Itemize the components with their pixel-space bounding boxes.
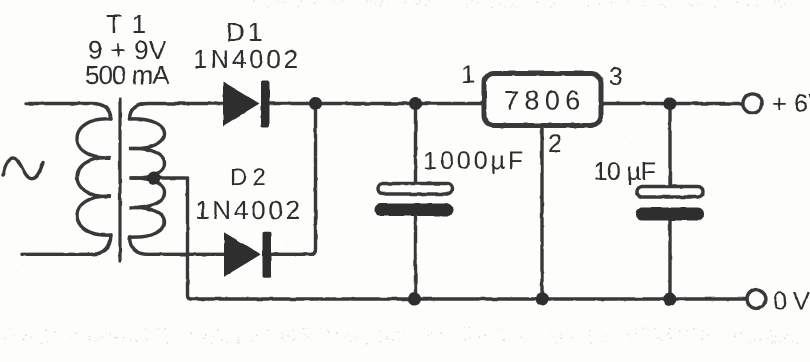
wire primary bottom lead — [22, 235, 111, 254]
svg-text:+ 6V: + 6V — [772, 90, 810, 118]
svg-text:1: 1 — [461, 61, 475, 89]
wire capacitor C2 top lead — [668, 104, 671, 187]
svg-text:7806: 7806 — [504, 86, 586, 116]
node junction dot D2-D1 — [309, 97, 322, 110]
node junction dot C1 top — [409, 97, 422, 110]
capacitor C2 10uF — [636, 187, 705, 221]
node junction dot C2 top — [664, 97, 677, 110]
svg-text:D1: D1 — [226, 17, 265, 47]
wire capacitor C1 top lead — [414, 104, 417, 185]
node junction dot C2 bottom — [664, 293, 677, 306]
regulator U1 7806 box — [484, 74, 601, 126]
wire primary top lead — [26, 104, 111, 120]
svg-text:0V: 0V — [773, 288, 810, 316]
svg-text:2: 2 — [548, 130, 562, 158]
transformer T1 core — [118, 99, 121, 261]
wire secondary bottom lead — [130, 237, 225, 254]
svg-text:1N4002: 1N4002 — [193, 44, 301, 74]
node junction dot C1 bottom — [408, 293, 421, 306]
wire center tap horizontal — [131, 176, 186, 179]
diode D1 — [223, 81, 270, 128]
capacitor C1 1000uF — [375, 184, 454, 217]
node junction dot pin2 bottom — [536, 293, 549, 306]
wire D1 cathode to regulator input (top rail) — [270, 102, 485, 105]
terminal 0V circle — [747, 290, 766, 309]
wire secondary top lead — [130, 104, 224, 120]
wire center tap down and bottom rail — [188, 178, 747, 299]
svg-text:D2: D2 — [230, 164, 271, 191]
wire D2 cathode up to top rail — [271, 104, 316, 255]
node junction dot center tap — [148, 172, 161, 185]
transformer T1 primary winding — [77, 119, 111, 235]
terminal +6V circle — [743, 94, 762, 113]
AC source symbol — [3, 158, 43, 179]
wire capacitor C1 bottom lead — [414, 215, 417, 299]
svg-text:10 µF: 10 µF — [594, 158, 656, 186]
svg-text:3: 3 — [609, 63, 623, 91]
svg-text:500 mA: 500 mA — [85, 60, 170, 90]
diode D2 — [224, 232, 271, 278]
wire regulator pin 2 down — [540, 126, 543, 299]
wire regulator output pin 3 — [601, 102, 741, 105]
svg-text:1000µF: 1000µF — [423, 147, 526, 175]
wire capacitor C2 bottom lead — [668, 220, 671, 299]
svg-text:1N4002: 1N4002 — [195, 195, 303, 225]
transformer T1 secondary winding — [130, 119, 165, 237]
